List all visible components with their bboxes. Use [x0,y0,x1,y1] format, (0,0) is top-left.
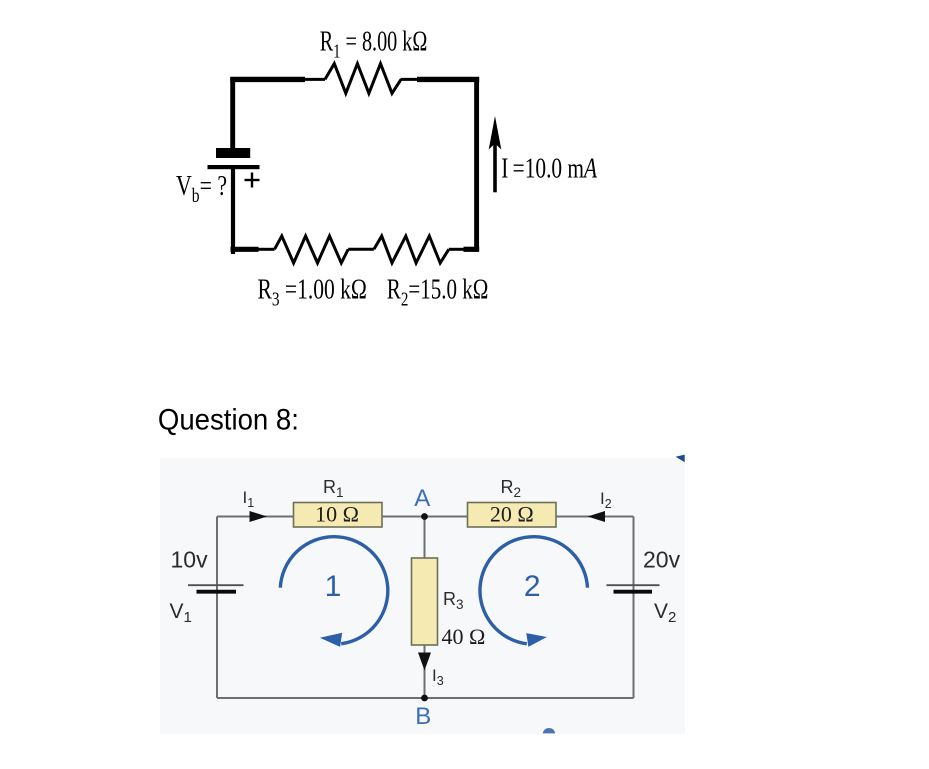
svg-text:R1 = 8.00 kΩ: R1 = 8.00 kΩ [320,26,428,62]
wire top circuit 2 [217,516,634,518]
resistor R1 [325,64,401,94]
svg-text:R3 =1.00 kΩ: R3 =1.00 kΩ [258,275,367,310]
resistor R2 [374,236,449,263]
current arrow I circuit 1 [489,116,502,192]
node B dot [421,695,428,702]
wire below battery circuit 1 [231,169,235,254]
battery V2 short plate [614,590,653,594]
wire middle branch circuit 2 [424,517,426,699]
current arrow I2 [588,511,606,522]
svg-text:1: 1 [325,570,342,603]
battery V2 long plate [607,584,660,586]
svg-text:Vb= ?: Vb= ? [176,172,227,207]
wire left circuit 2 [216,517,218,699]
svg-text:10 Ω: 10 Ω [315,502,359,527]
current arrow I1 [250,511,268,522]
current arrow I3 [418,653,431,671]
svg-text:R2=15.0 kΩ: R2=15.0 kΩ [387,275,489,310]
loop 1 arc [280,537,388,644]
svg-text:20 Ω: 20 Ω [490,502,534,527]
battery V1 short plate [197,590,237,594]
svg-text:40 Ω: 40 Ω [442,624,486,649]
battery V1 long plate [188,584,244,586]
loop 2 arrowhead [526,633,547,647]
wire bottom circuit 2 [217,697,634,699]
wire right side circuit 1 [474,77,479,252]
battery Vb plate positive [208,165,260,169]
svg-text:A: A [414,485,430,512]
svg-text:10v: 10v [171,547,209,573]
resistor R2 box circuit 2 [468,503,557,528]
svg-text:B: B [415,703,431,730]
loop 1 arrowhead [320,633,342,647]
resistor R3 box circuit 2 [412,558,438,645]
blue artifact bottom edge [543,728,556,733]
plus sign battery polarity [245,173,260,188]
loop 2 arc [480,537,588,644]
svg-text:I =10.0 mA: I =10.0 mA [501,154,597,184]
resistor R1 box circuit 2 [294,503,383,528]
battery Vb plate negative [216,148,250,158]
wire left side circuit 1 [230,77,235,149]
svg-text:20v: 20v [643,547,681,573]
svg-text:2: 2 [524,570,541,603]
figure background circuit 2 [160,458,685,734]
node A dot [421,513,428,520]
resistor R3 [275,236,349,263]
wire bottom side circuit 1 [231,247,480,252]
wire right circuit 2 [633,517,635,699]
svg-text:Question 8:: Question 8: [158,404,299,437]
wire top side circuit 1 [230,77,479,82]
blue corner artifact top right [676,455,685,463]
